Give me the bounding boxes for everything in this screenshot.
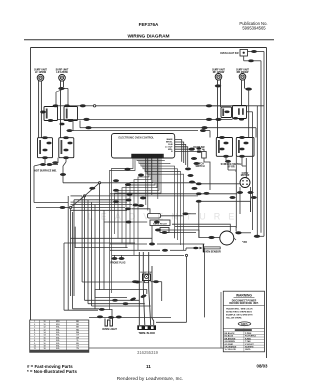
svg-text:12: 12 [43,329,45,331]
electronic oven control box [112,134,175,159]
oven sensor probe [203,244,220,252]
wire left element drops [39,81,68,138]
connector right of bake element [236,232,242,235]
svg-text:LR 1250W: LR 1250W [56,71,68,74]
connector below LR2 [60,173,66,175]
connector oval y130.6 left [67,129,73,131]
svg-text:6: 6 [34,335,35,337]
surface element left-front [37,75,44,82]
wire lower switch drops [45,158,99,183]
connector column left ovals [196,183,202,203]
door lock motor [143,274,151,283]
svg-text:PU-PURPLE: PU-PURPLE [245,336,257,338]
connector mid left [53,162,59,164]
wire right switch feeds [212,106,253,112]
svg-text:2: 2 [34,324,35,326]
right lower switch RR2 [236,136,254,157]
wire bus y105.8 [58,105,264,108]
hot surface indicator connectors [40,163,52,165]
terminal block label [138,332,155,335]
oven lamp connectors [97,316,121,319]
connector below left-rear element [59,87,65,90]
wire cascade pass-through verticals [146,158,158,210]
center vertical bundle [68,184,104,310]
wire bus y127.7 [80,121,256,138]
svg-text:P-PINK: P-PINK [245,333,252,335]
svg-text:GN/YL: GN/YL [245,349,252,351]
surface element left-rear label [56,69,69,74]
svg-text:OR-ORANGE: OR-ORANGE [225,346,238,349]
right lower switch labels [221,163,242,169]
svg-text:YELLOW STRIPE.: YELLOW STRIPE. [226,318,242,320]
connector cluster mid ovals [90,187,139,210]
svg-text:12: 12 [43,327,45,329]
wire oven light switch [244,52,264,237]
door switch [189,147,206,158]
footer rendered by [117,376,183,382]
wire bus y130.6 [67,121,210,138]
watermark [88,212,243,222]
svg-text:LF 1250W: LF 1250W [35,71,47,74]
publication number label [239,21,267,31]
EOC pin labels [165,138,173,153]
svg-text:T-TAN: T-TAN [245,340,251,343]
svg-text:OVEN LIGHT: OVEN LIGHT [102,328,117,331]
wire bake element [172,203,264,240]
oven sensor connector black [193,247,199,250]
svg-text:TERM. BLOCK: TERM. BLOCK [138,332,155,335]
surface element left-rear [59,75,66,82]
left lower switch LR2 [59,137,74,159]
svg-text:W-WHITE: W-WHITE [245,347,254,349]
infinite switch LR [64,105,78,122]
door lock housing outline [95,290,147,310]
wire relay cluster links [104,209,199,244]
surface element right-rear [239,74,246,81]
svg-text:NOTED FIRST, STRIPE NEXT.: NOTED FIRST, STRIPE NEXT. [226,312,253,314]
svg-text:BR-BROWN: BR-BROWN [225,338,236,340]
connector right of oven light switch [251,50,257,52]
svg-text:316255319: 316255319 [137,350,159,355]
connector right below conv motor [248,191,254,193]
oven lamp [105,319,113,327]
svg-text:10: 10 [43,324,45,326]
relay box cluster [148,214,171,233]
svg-text:7: 7 [34,337,35,339]
connector below right-rear element [246,88,252,91]
wire mid horizontals [71,183,199,211]
svg-text:MOTOR: MOTOR [241,175,250,177]
wire door lock row [82,282,162,301]
connector below right-front element [215,85,221,88]
oven lamp label [102,328,117,331]
svg-text:10: 10 [34,346,36,348]
left lower switch LF2 [38,137,53,159]
svg-text:V-VIOLET: V-VIOLET [245,344,254,346]
hot surface indicator label [34,170,57,173]
oven light switch label [220,53,239,55]
title FEF376A [139,22,159,27]
warning box [223,291,264,352]
parts table row text [34,320,80,350]
wire right column verticals [202,106,257,235]
convection motor label [241,173,250,177]
connector between lower right switches [225,160,231,162]
wire left feeder [34,165,69,208]
svg-text:Rendered by LeadVenture, Inc.: Rendered by LeadVenture, Inc. [117,376,183,382]
footer legend [27,364,77,374]
svg-text:GN/YL: GN/YL [241,324,249,326]
svg-text:OVEN SENSOR: OVEN SENSOR [203,251,221,254]
connector right of door lock [153,281,159,283]
svg-text:PROBE PLUG: PROBE PLUG [110,263,125,265]
connector left of right switches row1 [206,105,212,108]
door switch label [193,147,205,149]
node junctions center [69,182,100,209]
surface element right-front [215,74,222,81]
wiring diagram heading [127,34,169,40]
svg-text:08/03: 08/03 [257,364,269,369]
slanted connector pair A [130,297,136,301]
svg-text:* = Non-Illustrated Parts: * = Non-Illustrated Parts [27,369,77,374]
svg-text:BK-BLACK: BK-BLACK [225,332,236,335]
svg-text:5: 5 [34,332,35,334]
svg-text:16: 16 [43,337,45,339]
connector lower oven light [248,60,254,62]
svg-text:YL-YELLOW: YL-YELLOW [225,349,236,351]
wire horizontal y243 [64,242,135,244]
svg-text:8: 8 [34,340,35,342]
svg-text:11: 11 [146,364,151,369]
svg-text:18: 18 [43,346,45,348]
connector y127.7 right [202,126,208,129]
connector oval y124 left [60,123,65,125]
surface element right-front label [212,69,225,74]
oven sensor label [203,251,221,254]
parts table [30,320,89,352]
svg-text:9: 9 [34,343,35,345]
bottom bus wires [64,243,204,317]
oven light switch box top right [240,50,248,57]
svg-text:R-RED: R-RED [245,338,252,340]
bake element circle [220,231,234,245]
connector left of right switches row1b [206,118,212,121]
svg-text:18: 18 [43,348,45,350]
svg-text:* BB: * BB [242,242,247,244]
connector left of bake element [209,236,215,239]
svg-text:10: 10 [43,321,45,323]
svg-text:11: 11 [34,348,36,350]
wire right element drops [218,80,249,138]
door lock motor label [141,272,153,274]
right lower switch RF2 [216,136,232,157]
part number [137,350,159,355]
svg-text:3: 3 [34,327,35,329]
svg-text:5995394565: 5995394565 [242,26,266,31]
svg-text:16: 16 [43,343,45,345]
warning color table [223,328,264,351]
svg-text:ELECTRONIC OVEN CONTROL: ELECTRONIC OVEN CONTROL [119,137,155,140]
slanted connector pair B [140,294,146,298]
bottom bus connectors [99,281,138,319]
wire EOC fanout cascade [110,158,184,310]
infinite switch LF [40,105,58,122]
connector pair y197.5 [230,196,257,198]
svg-text:1: 1 [34,321,35,323]
convection motor [240,178,250,188]
svg-text:BEFORE SERVICING UNIT.: BEFORE SERVICING UNIT. [229,303,259,305]
wire horizontal y238.3 [71,237,153,239]
oven sensor plug ovals [110,255,125,264]
svg-text:GY-GRAY: GY-GRAY [225,343,234,346]
relay cluster connectors [126,213,189,234]
terminal block [137,325,156,330]
svg-text:EXAMPLE: GN/YL WRE WITH: EXAMPLE: GN/YL WRE WITH [226,314,253,317]
svg-text:WARNING: WARNING [236,293,252,297]
wire EOC right-side outputs [175,140,204,167]
mid horizontal buses y244-255 [110,243,204,322]
svg-text:FEF376A: FEF376A [139,22,159,27]
oven sensor triangle [200,247,203,250]
svg-text:HOT SURFACE IND.: HOT SURFACE IND. [34,170,57,173]
svg-text:RF-RR: RF-RR [227,167,234,169]
diagram frame [31,48,267,359]
svg-text:16: 16 [43,340,45,342]
connector left below conv motor [237,191,243,193]
svg-text:SWITCH: SWITCH [195,166,204,168]
footer page number [146,364,151,369]
surface element right-rear label [236,69,249,74]
cascade connector ovals [113,157,209,207]
svg-text:OVEN LIGHT SW: OVEN LIGHT SW [220,53,239,55]
infinite switch RF [221,107,232,118]
svg-text:TRACER WRG - WRE COLOR: TRACER WRG - WRE COLOR [226,308,253,311]
surface element left-front label [34,69,47,74]
svg-text:WIRING DIAGRAM: WIRING DIAGRAM [127,34,169,40]
heading underline [24,39,274,41]
connector far right of bake element [254,235,260,238]
infinite switch RR [233,106,247,121]
svg-text:BU-BLUE: BU-BLUE [225,336,234,338]
connector left of door lock [135,281,141,283]
EOC pin header [132,154,164,158]
wire loop rectangle [75,227,127,248]
wire bus y119.4 [58,118,233,121]
bake element note [242,242,247,244]
connector left mid [60,206,66,208]
wire mid-right horizontals [100,183,251,212]
latch label left [195,163,204,169]
svg-text:GN-GREEN: GN-GREEN [225,341,236,343]
footer date [257,364,269,369]
terminal block wires [139,252,153,325]
